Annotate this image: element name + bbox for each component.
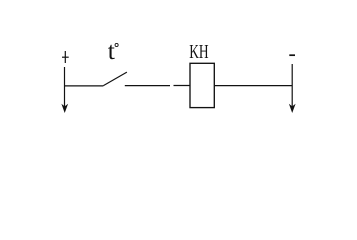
wire from relay to minus terminal xyxy=(214,85,292,87)
svg-text:t: t xyxy=(108,36,115,65)
wire xyxy=(174,85,191,87)
wire left terminal vertical lead xyxy=(64,67,66,108)
wire right terminal vertical lead xyxy=(291,64,293,108)
switch SK thermal contact blade xyxy=(103,72,127,86)
node - (negative supply terminal) xyxy=(289,54,295,56)
node + (positive supply terminal) xyxy=(62,51,69,63)
right terminal arrowhead xyxy=(289,104,296,113)
svg-text:KH: KH xyxy=(189,42,208,63)
wire from + lead to switch xyxy=(64,85,103,87)
left terminal arrowhead xyxy=(61,104,68,113)
switch fixed contact / wire to relay xyxy=(125,85,170,87)
relay coil KH (rectangle) xyxy=(190,63,214,107)
